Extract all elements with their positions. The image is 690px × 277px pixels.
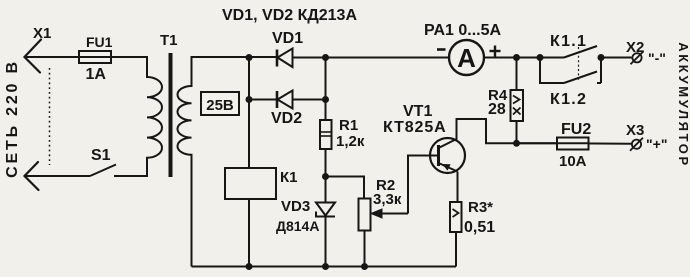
node D junction [322, 96, 329, 103]
collector wire [457, 119, 558, 143]
relay coil K1 [225, 100, 276, 267]
wire R1 to node E [325, 149, 327, 203]
svg-text:0,51: 0,51 [464, 219, 495, 236]
plus sign [490, 46, 501, 57]
svg-text:К1: К1 [280, 169, 298, 186]
terminal X2 [631, 51, 644, 64]
svg-text:25В: 25В [206, 97, 234, 114]
fuse FU2 [557, 138, 632, 150]
rail junction VD3 [322, 263, 329, 270]
wire node H to FU2 [517, 142, 558, 144]
rail junction relay [246, 263, 253, 270]
wiper of R2 [371, 156, 430, 219]
voltage box 25В [201, 92, 239, 115]
svg-text:VD3: VD3 [281, 198, 310, 215]
wire X1 to S1 [25, 175, 91, 177]
mechanical link of K1 contacts [578, 47, 580, 80]
node B junction [246, 96, 253, 103]
terminal X3 [630, 138, 643, 151]
svg-text:X2: X2 [626, 39, 644, 56]
wire X1 to FU1 [25, 56, 80, 58]
transformer T1 primary [147, 56, 162, 177]
node E junction [322, 173, 329, 180]
connector X1 pin bottom [25, 162, 39, 190]
wire PA1 to K1.1 [484, 57, 564, 59]
diode VD1 [277, 49, 326, 68]
node H junction R4 bottom [513, 140, 520, 147]
switch S1 [90, 165, 148, 177]
node C junction [322, 54, 329, 61]
transformer T1 secondary [177, 56, 191, 267]
ammeter PA1 [449, 40, 484, 75]
svg-text:Т1: Т1 [160, 32, 178, 49]
svg-text:VD1: VD1 [272, 30, 303, 47]
mechanical link dotted [49, 68, 51, 165]
svg-text:S1: S1 [91, 147, 111, 164]
diode VD2 [277, 91, 326, 109]
node G junction K1.2 branch [537, 54, 544, 61]
svg-text:X3: X3 [626, 122, 644, 139]
svg-text:К1.2: К1.2 [550, 91, 587, 108]
node A junction [246, 54, 253, 61]
svg-text:А: А [457, 43, 476, 73]
svg-text:К1.1: К1.1 [550, 33, 587, 50]
transistor VT1 [430, 138, 465, 173]
wire node A down [248, 58, 250, 100]
svg-text:АККУМУЛЯТОР: АККУМУЛЯТОР [676, 42, 690, 168]
emitter arrow of VT1 [442, 164, 451, 171]
wire secondary to node A [192, 56, 277, 58]
node F junction R4 top [513, 54, 520, 61]
svg-text:R1: R1 [339, 117, 358, 134]
svg-text:КТ825А: КТ825А [383, 119, 447, 136]
wire main top VD1 to PA1 [293, 57, 450, 59]
svg-text:1А: 1А [86, 66, 107, 83]
svg-text:28: 28 [488, 101, 506, 118]
svg-text:VD1, VD2 КД213А: VD1, VD2 КД213А [222, 7, 357, 24]
fuse FU1 [79, 51, 148, 63]
svg-text:"-": "-" [648, 50, 666, 66]
bottom rail wire [192, 266, 457, 268]
svg-text:R3*: R3* [468, 199, 493, 216]
wire node C down to R1 [325, 58, 327, 121]
node I junction [598, 54, 605, 61]
svg-text:X1: X1 [33, 25, 51, 42]
resistor R4 [511, 58, 524, 144]
emitter wire [457, 172, 459, 203]
connector X1 pin top [25, 40, 42, 73]
svg-text:Д814А: Д814А [276, 218, 319, 234]
svg-text:1,2к: 1,2к [336, 133, 365, 150]
svg-text:СЕТЬ 220 В: СЕТЬ 220 В [4, 59, 21, 178]
svg-text:VT1: VT1 [403, 103, 432, 120]
svg-text:PA1 0...5А: PA1 0...5А [424, 22, 502, 39]
transformer core [169, 53, 173, 177]
wire node E to R2 top [326, 177, 365, 199]
svg-text:FU2: FU2 [561, 121, 591, 138]
rail junction R2 [361, 263, 368, 270]
svg-text:VD2: VD2 [271, 110, 302, 127]
contact K1.1 [564, 46, 632, 58]
rheostat R2 [359, 199, 371, 267]
svg-text:FU1: FU1 [86, 34, 113, 50]
zener VD3 [316, 203, 335, 267]
resistor R1 [320, 120, 332, 149]
svg-text:3,3к: 3,3к [373, 191, 402, 208]
minus sign [437, 48, 446, 51]
contact K1.2 [540, 58, 601, 84]
wire node B to VD2 [249, 99, 276, 101]
resistor R3 [450, 202, 462, 267]
svg-text:"+": "+" [646, 136, 667, 152]
svg-text:10А: 10А [559, 153, 587, 170]
